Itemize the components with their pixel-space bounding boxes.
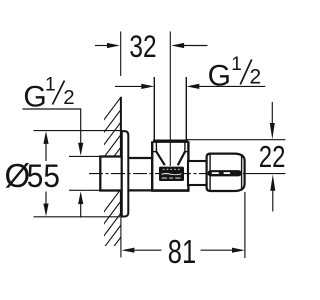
G1/2 top arrows (115, 85, 143, 87)
22 bottom ext (solid over centerline) (246, 173, 286, 175)
svg-text:G: G (208, 60, 231, 93)
svg-text:55: 55 (27, 158, 60, 194)
knurl slot (208, 170, 242, 176)
redraw label over centerline (159, 170, 184, 178)
dia 55 ext lines (34, 130, 121, 132)
wall line lower extension (81 dim) (120, 217, 122, 258)
svg-text:32: 32 (129, 29, 156, 64)
svg-text:1: 1 (231, 54, 242, 75)
collar inner bore lines (155, 143, 157, 152)
knurl inner lines (209, 154, 211, 191)
dim 32 (95, 45, 108, 47)
svg-text:G: G (23, 80, 46, 113)
hex block bottom (151, 189, 189, 192)
dimension ext line 32 left (120, 32, 122, 77)
svg-text:81: 81 (168, 234, 196, 271)
wall surface line (120, 97, 122, 217)
thread label G 1/2 top right (208, 54, 262, 93)
svg-text:2: 2 (63, 86, 74, 109)
logo label plate (159, 167, 184, 181)
dim 81 (135, 249, 162, 251)
G1/2 left leader (23, 108, 82, 110)
inlet nipple G1/2 (100, 157, 122, 191)
dia 55 arrows (43, 131, 48, 144)
horizontal centerline (89, 173, 246, 175)
outlet pipe G1/2 vertical (153, 77, 155, 140)
nipple edge extension lines (69, 155, 101, 157)
dim 22 (187, 139, 286, 141)
hex block sides (151, 141, 153, 191)
body neck (128, 157, 152, 159)
pipe centerline / 32 ext right (169, 32, 171, 167)
outlet stub (188, 161, 207, 185)
wall hatching (103, 95, 123, 261)
wall flange (escutcheon) (122, 131, 129, 216)
collar bottom steps (152, 151, 156, 153)
svg-text:1: 1 (45, 75, 56, 96)
redraw slot over centerline (208, 170, 242, 176)
funnel diagonals (156, 152, 165, 166)
compression nut (207, 154, 245, 191)
center hex body (153, 142, 187, 191)
svg-text:2: 2 (250, 66, 262, 89)
collar flare line (thick) (153, 139, 188, 142)
thread label G 1/2 left (23, 75, 74, 114)
svg-text:22: 22 (259, 139, 286, 174)
